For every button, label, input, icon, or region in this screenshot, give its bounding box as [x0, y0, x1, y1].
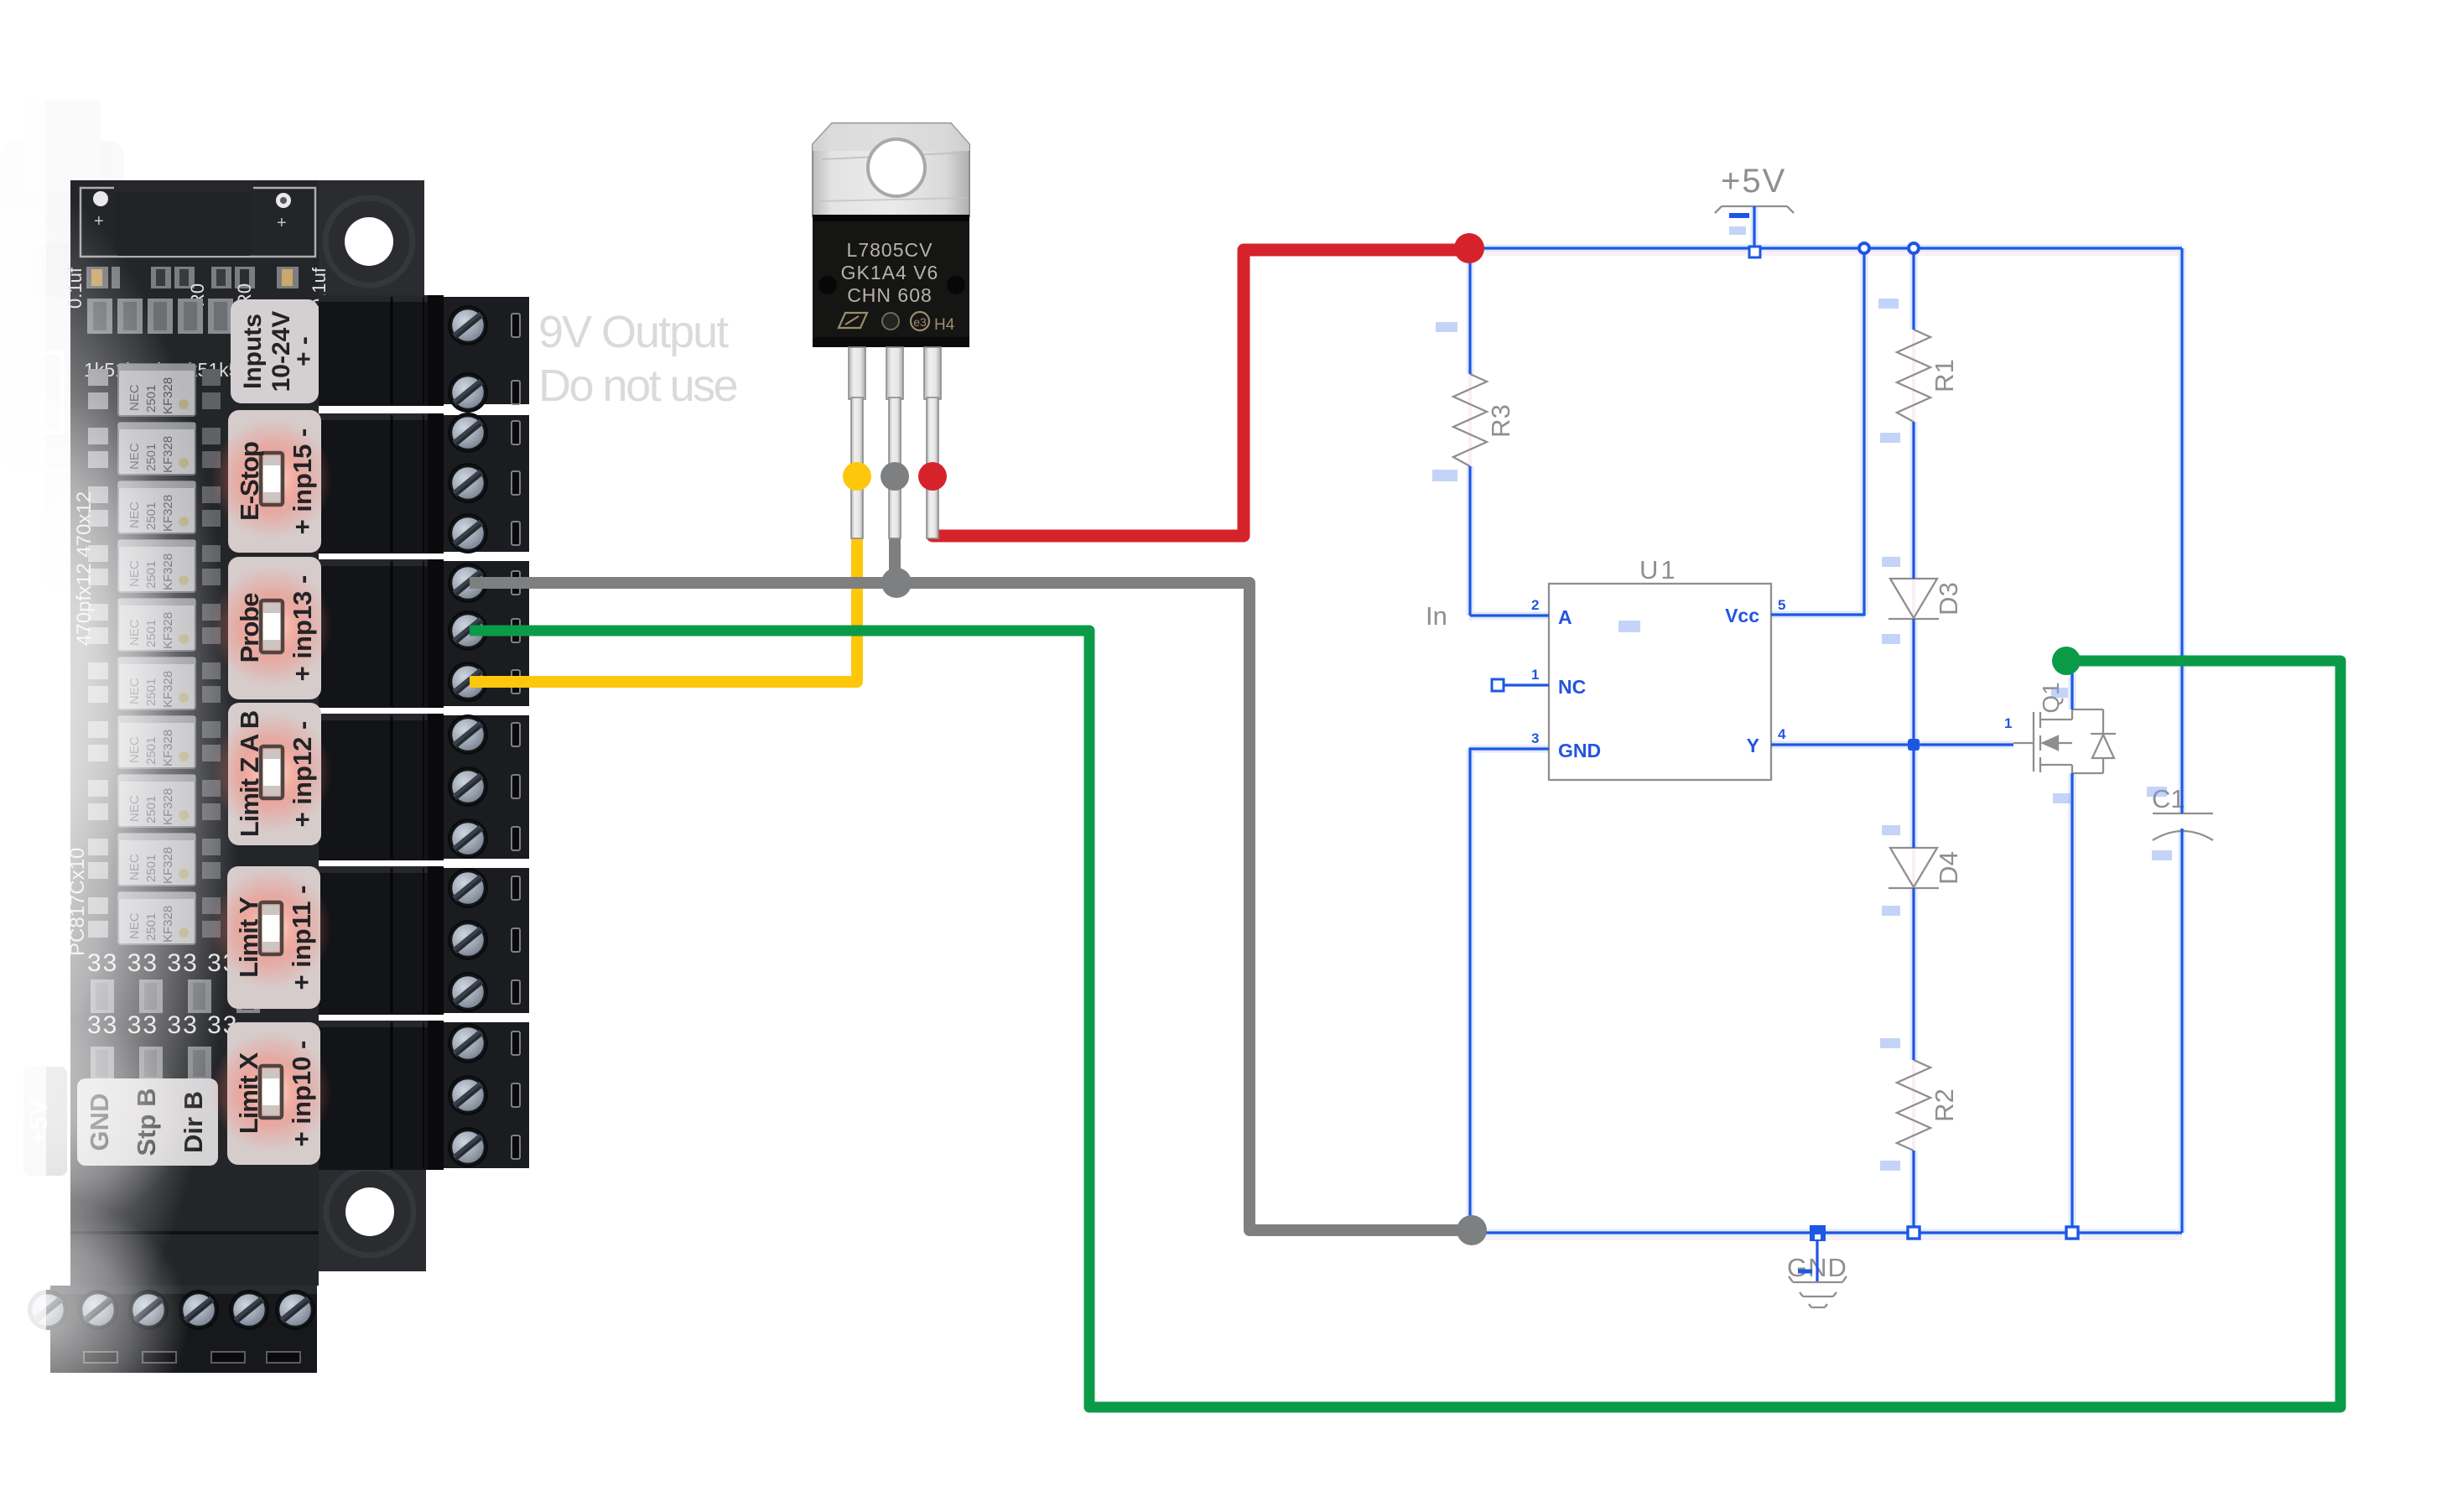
svg-text:Limit Y: Limit Y: [234, 896, 263, 978]
wire NC stub: [1498, 683, 1549, 686]
svg-text:GK1A4 V6: GK1A4 V6: [841, 262, 939, 283]
smd row (R0 / 0.1uf): [86, 267, 299, 288]
svg-text:R2: R2: [1930, 1089, 1959, 1122]
junction node marks: [1492, 216, 2078, 1281]
svg-text:H4: H4: [934, 316, 955, 334]
mosfet Q1: [2013, 712, 2034, 772]
smd resistor row 1k5: [87, 299, 233, 334]
wire red (regulator Vin to +5V rail): [933, 250, 1466, 536]
terminal block row 6 (Limit X): [319, 1021, 529, 1170]
node junction Y/D column: [1908, 739, 1920, 751]
svg-text:Inputs: Inputs: [239, 314, 267, 389]
svg-text:GND: GND: [1558, 740, 1601, 761]
breakout board PCB base: [70, 180, 319, 1286]
svg-text:In: In: [1426, 601, 1447, 631]
node ring Vcc/top: [1859, 243, 1869, 253]
svg-text:Do not use: Do not use: [538, 361, 737, 411]
wire gray (inp13+ / regulator gnd to schematic bottom rail): [470, 583, 1469, 1230]
node +5V square: [1749, 247, 1760, 257]
terminal block row 3 (Probe): [319, 559, 529, 708]
wire In to pin A: [1470, 614, 1549, 616]
svg-text:Vcc: Vcc: [1725, 605, 1759, 626]
big SMD relay/diode part: [114, 180, 253, 256]
svg-text:E-Stop: E-Stop: [235, 442, 264, 521]
mounting hole bottom: [345, 1187, 394, 1236]
body mold dots: [818, 276, 837, 294]
blue pin numbers: [1531, 597, 2012, 746]
label plate GND / Stp B / Dir B: [77, 1078, 218, 1166]
mosfet body diode: [2072, 709, 2103, 773]
wire GND pin to bottom rail: [1470, 749, 1549, 1233]
node yellow at regulator pin 1: [843, 462, 871, 491]
label plate Inputs 10-24V: [231, 299, 319, 403]
regulator body: [813, 215, 969, 347]
optocoupler chips column (NEC 2501 KF328): [88, 364, 221, 944]
node ring R1/top: [1909, 243, 1919, 253]
PCB top-right mounting ear: [319, 180, 424, 295]
node gray at schematic bottom rail: [1457, 1215, 1487, 1245]
terminal block row 2 (E-Stop): [319, 413, 529, 553]
svg-text:U1: U1: [1639, 555, 1678, 585]
diode D4: [1890, 848, 1937, 887]
faint far-left connector (faded): [0, 101, 124, 587]
svg-text:R3: R3: [1486, 404, 1515, 438]
node gray at regulator pin 2: [881, 462, 909, 491]
wire In drop through R3: [1468, 248, 1471, 616]
ST logo: [839, 313, 867, 328]
svg-text:A: A: [1558, 606, 1572, 628]
terminal block row 1 (Inputs): [319, 295, 529, 413]
node gray junction on gray wire: [881, 568, 912, 598]
svg-text:1: 1: [2004, 715, 2012, 731]
white fade overlay over left photo: [0, 172, 239, 1421]
wire right rail to C1: [2180, 248, 2183, 1233]
svg-text:+ inp10 -: + inp10 -: [287, 1041, 316, 1147]
svg-text:+ inp13 -: + inp13 -: [288, 575, 317, 682]
label plate Limit X inp10: [227, 1022, 320, 1165]
svg-text:Probe: Probe: [235, 593, 264, 663]
svg-text:1: 1: [1531, 667, 1539, 683]
svg-text:2: 2: [1531, 597, 1539, 613]
LED inp12: [211, 712, 332, 833]
LED inp15: [211, 418, 332, 539]
svg-text:+ inp15 -: + inp15 -: [288, 429, 317, 535]
blue pin names: [1558, 605, 1759, 761]
PCB bottom mounting ear: [319, 1158, 426, 1271]
svg-text:3: 3: [1531, 730, 1539, 746]
gray schematic labels: [1426, 163, 2185, 1282]
LED inp13: [211, 566, 332, 687]
svg-text:+ inp11 -: + inp11 -: [287, 886, 316, 990]
wire green (inp13 mid to mosfet drain): [470, 631, 2340, 1407]
wire Vcc riser: [1771, 248, 1864, 615]
node ring Q1 source/bottom: [2066, 1227, 2078, 1239]
svg-text:D3: D3: [1934, 582, 1963, 616]
diode D3: [1890, 579, 1937, 618]
gray component symbols: [1453, 206, 2213, 1307]
soft halos under blue wires: [1469, 206, 2182, 1233]
regulator metal tab: [813, 123, 969, 216]
svg-text:D4: D4: [1934, 851, 1963, 885]
relay silkscreen box: [81, 188, 315, 257]
svg-text:+: +: [277, 214, 287, 232]
node red at regulator pin 3: [918, 462, 947, 491]
bottom terminal block: [28, 1286, 317, 1373]
+5V label (faded): [23, 1067, 67, 1176]
svg-text:+ -: + -: [290, 336, 318, 366]
svg-text:Y: Y: [1747, 735, 1759, 756]
terminal block row 4 (Limit Z A B): [319, 714, 529, 860]
resistor R1: [1897, 330, 1930, 422]
label plate Limit Z A B inp12: [228, 703, 321, 845]
blue net wires: [1469, 206, 2182, 1233]
wire D-column: [1912, 248, 1914, 1233]
wire +5V drop: [1753, 206, 1755, 248]
svg-text:+5V: +5V: [1721, 163, 1786, 200]
label plate E-Stop inp15: [228, 410, 321, 553]
body marking text: [841, 239, 939, 306]
resistor R3: [1453, 374, 1487, 466]
tab hole: [868, 139, 925, 196]
svg-text:4: 4: [1778, 726, 1786, 742]
mounting hole top: [345, 217, 393, 266]
wire bottom GND rail: [1470, 1231, 2182, 1234]
wire Y output: [1771, 743, 2013, 746]
+5V net dash: [1729, 213, 1749, 218]
label plate Probe inp13: [228, 557, 321, 699]
LED inp11: [210, 868, 331, 989]
board bottom seam: [70, 1231, 319, 1234]
power +5V bar: [1715, 206, 1794, 213]
node NC stub square: [1492, 679, 1504, 691]
svg-text:e3: e3: [913, 315, 927, 329]
svg-text:CHN 608: CHN 608: [847, 284, 933, 306]
node red at schematic +5V rail: [1454, 233, 1484, 263]
LED inp10: [210, 1031, 331, 1152]
svg-text:+ inp12 -: + inp12 -: [288, 721, 317, 828]
svg-text:9V Output: 9V Output: [538, 307, 729, 357]
capacitor C1: [2153, 813, 2213, 814]
terminal block row 5 (Limit Y): [319, 866, 529, 1015]
node green at mosfet drain: [2052, 647, 2081, 675]
resistor R2: [1897, 1060, 1930, 1151]
fuzzy blue artifacts near pins: [1432, 226, 2172, 1171]
label plate Limit Y inp11: [227, 866, 320, 1009]
svg-text:L7805CV: L7805CV: [847, 239, 933, 261]
wire gray regulator leg drop: [889, 476, 901, 583]
svg-text:Limit X: Limit X: [234, 1052, 263, 1135]
wire yellow (inp13- to regulator pin1): [470, 476, 857, 682]
wire +5V top rail: [1469, 247, 2182, 249]
node ring R2/bottom: [1908, 1227, 1920, 1239]
svg-text:R1: R1: [1930, 359, 1959, 392]
svg-text:NC: NC: [1558, 676, 1586, 698]
svg-text:5: 5: [1778, 597, 1785, 613]
svg-text:Limit Z A B: Limit Z A B: [235, 711, 264, 837]
legs: [849, 347, 941, 538]
terminal rows: [210, 295, 529, 1170]
node GND square: [1810, 1225, 1826, 1241]
ground GND symbol: [1789, 1276, 1847, 1307]
IC U1 box: [1549, 584, 1771, 780]
wire mosfet drain/source: [2070, 661, 2073, 1233]
